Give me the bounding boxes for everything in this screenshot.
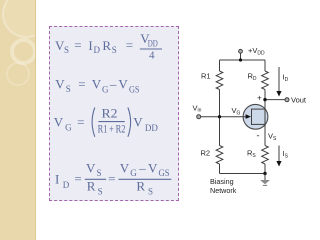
wire to Vout (265, 99, 285, 101)
resistor R2 (216, 146, 223, 165)
svg-text:VG: VG (232, 106, 241, 117)
current arrow IS (276, 146, 281, 167)
left decorative sidebar (0, 0, 36, 240)
wire right branch upper (264, 60, 266, 71)
dashed equation box (49, 26, 179, 201)
svg-text:R1: R1 (201, 72, 211, 81)
svg-text:+VDD: +VDD (248, 46, 265, 57)
svg-text:RD: RD (248, 72, 257, 83)
svg-text:Vin: Vin (193, 104, 202, 114)
svg-text:Vout: Vout (291, 96, 307, 105)
node junction gate/divider (218, 115, 221, 118)
node junction bottom (263, 172, 266, 175)
input terminal Vin (197, 115, 201, 119)
transistor Q1 gate arrow (246, 114, 251, 119)
svg-text:+: + (257, 93, 262, 102)
output terminal Vout (285, 98, 289, 102)
transistor Q1 internal bars (252, 109, 266, 125)
wire left branch middle (219, 90, 221, 146)
wire bottom rail (220, 173, 266, 175)
equation 1 (55, 31, 162, 61)
resistor R1 (216, 71, 223, 90)
wire left branch lower (219, 164, 221, 174)
wire channel through Q1 (264, 105, 266, 146)
power terminal +VDD (239, 49, 243, 60)
wire ground stub (264, 174, 266, 181)
resistor RS (262, 146, 269, 165)
wire left branch upper (219, 60, 221, 71)
svg-text:RS: RS (247, 149, 256, 160)
wire source lower (264, 164, 266, 174)
current arrow ID (276, 67, 281, 97)
transistor Q1 body (243, 104, 268, 129)
svg-text:IS: IS (283, 149, 289, 160)
ground (260, 180, 270, 185)
resistor RD (262, 71, 269, 90)
equation 4 (55, 160, 171, 196)
svg-text:ID: ID (283, 73, 289, 84)
svg-text:VS: VS (268, 132, 277, 143)
equation 2 (55, 76, 139, 94)
node junction at VDD rail (239, 58, 242, 61)
svg-text:R2: R2 (201, 149, 211, 158)
svg-text:-: - (257, 131, 260, 141)
equation 3 (54, 105, 159, 136)
wire top rail (220, 59, 266, 61)
wire drain segment (264, 90, 266, 105)
label Biasing Network (210, 177, 236, 195)
node junction drain/Vout (263, 98, 266, 101)
wire gate from Vin (201, 116, 246, 118)
